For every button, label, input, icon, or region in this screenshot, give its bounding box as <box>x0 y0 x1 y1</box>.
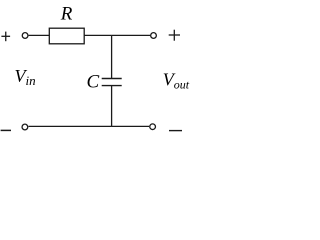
wire: bottom rail left segment <box>29 125 112 127</box>
wire: input terminal to resistor <box>29 34 50 36</box>
wire: resistor to node A <box>84 34 111 36</box>
minus sign: input negative polarity <box>1 129 11 131</box>
svg-text:Vin: Vin <box>15 66 36 88</box>
node A: junction of resistor, capacitor, output <box>112 34 151 36</box>
terminal: input top-left <box>22 33 28 39</box>
terminal: input bottom-left <box>22 124 28 130</box>
svg-text:Vout: Vout <box>163 69 190 91</box>
minus sign: output negative polarity <box>169 130 182 132</box>
terminal: output bottom-right <box>150 124 156 130</box>
wire: bottom rail right segment <box>112 125 149 127</box>
wire: capacitor bottom plate to bottom rail <box>111 86 113 127</box>
terminal: output top-right <box>151 33 157 39</box>
plus sign: input positive polarity <box>1 32 10 42</box>
svg-text:C: C <box>87 71 100 92</box>
plus sign: output positive polarity <box>169 30 180 41</box>
capacitor C <box>102 79 122 86</box>
svg-text:R: R <box>60 4 73 25</box>
wire: node A down to capacitor top plate <box>111 35 113 78</box>
resistor R <box>49 28 84 44</box>
